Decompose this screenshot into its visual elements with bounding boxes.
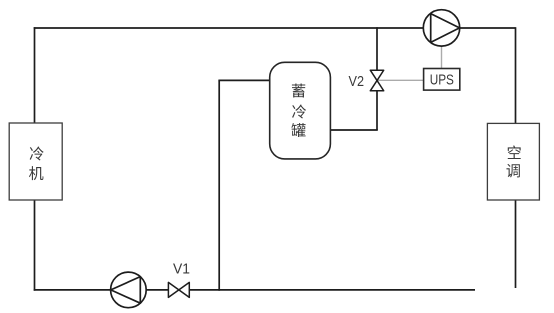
chiller box 冷机 — [9, 123, 62, 200]
storage tank 蓄冷罐 (rounded) — [270, 62, 331, 159]
wire: grey control line from top pump to UPS — [441, 46, 443, 69]
valve V1 (horizontal bowtie) — [168, 282, 189, 297]
wire: middle riser from bottom pipe junction up to tank inlet level — [218, 80, 220, 290]
wire: right riser from top pipe down to AC unit top — [515, 27, 517, 123]
wire: tank outlet stub from tank right side to V2 branch — [330, 129, 378, 131]
wire: V2 branch drop from top pipe down to tank outlet level — [376, 27, 378, 130]
wire: left riser from top pipe down to chiller top — [34, 27, 36, 123]
wire: top header pipe from left riser to right riser — [34, 27, 516, 29]
wire: left downcomer from chiller bottom to bottom pipe — [34, 200, 36, 291]
label V1 — [173, 261, 190, 277]
wire: right downcomer from AC unit bottom, unterminated — [515, 200, 517, 288]
valve V2 (vertical bowtie) — [370, 70, 383, 91]
UPS controller box — [424, 69, 460, 91]
svg-text:V2: V2 — [349, 74, 365, 90]
pump P2 (bottom, triangle pointing left) — [111, 272, 147, 308]
AC unit box 空调 — [487, 123, 539, 200]
svg-text:UPS: UPS — [430, 71, 454, 88]
wire: grey control line from valve V2 to UPS — [377, 79, 424, 81]
pump P1 (top, triangle pointing right) — [423, 10, 459, 46]
wire: tank inlet stub into tank left side — [218, 79, 270, 81]
svg-text:V1: V1 — [173, 261, 190, 277]
label V2 — [349, 74, 365, 90]
wire: bottom return pipe — [34, 289, 475, 291]
